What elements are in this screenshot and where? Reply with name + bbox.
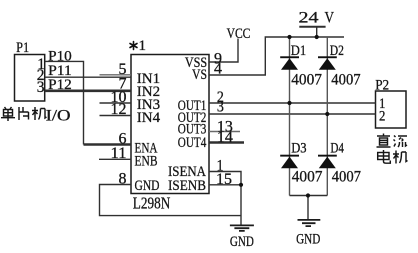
svg-text:ENB: ENB: [135, 154, 158, 170]
svg-text:D3: D3: [291, 141, 306, 157]
svg-text:4007: 4007: [292, 169, 323, 186]
svg-text:ISENB: ISENB: [168, 178, 206, 194]
svg-text:12: 12: [111, 101, 127, 118]
svg-text:1: 1: [139, 38, 147, 54]
svg-text:V: V: [325, 10, 335, 27]
svg-text:P2: P2: [375, 77, 389, 93]
svg-text:I/O: I/O: [46, 108, 71, 125]
svg-text:OUT4: OUT4: [178, 135, 207, 151]
svg-text:8: 8: [119, 170, 127, 187]
svg-text:VCC: VCC: [227, 26, 251, 42]
svg-text:14: 14: [217, 129, 233, 146]
svg-text:D2: D2: [330, 43, 344, 59]
svg-text:P1: P1: [16, 40, 29, 56]
svg-text:D4: D4: [330, 141, 344, 157]
svg-text:4007: 4007: [332, 169, 361, 186]
svg-text:24: 24: [299, 10, 319, 27]
svg-text:4: 4: [214, 61, 222, 78]
svg-text:D1: D1: [291, 43, 306, 59]
svg-text:VS: VS: [192, 67, 207, 83]
svg-text:GND: GND: [296, 232, 320, 248]
svg-text:4007: 4007: [331, 72, 360, 89]
svg-text:IN4: IN4: [137, 110, 161, 126]
svg-text:P12: P12: [48, 77, 72, 93]
svg-text:GND: GND: [135, 178, 160, 194]
svg-text:GND: GND: [230, 234, 254, 250]
svg-text:3: 3: [37, 79, 45, 96]
svg-text:2: 2: [379, 109, 385, 125]
svg-text:15: 15: [216, 171, 232, 188]
svg-text:11: 11: [111, 145, 127, 162]
svg-text:L298N: L298N: [133, 194, 171, 213]
svg-text:3: 3: [217, 99, 224, 116]
svg-text:4007: 4007: [291, 72, 322, 89]
